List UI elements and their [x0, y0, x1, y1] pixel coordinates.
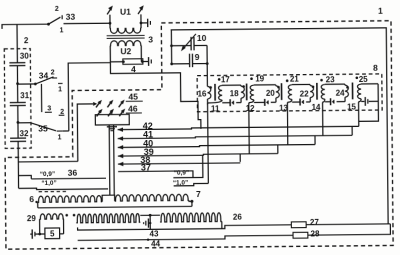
tap to 0,9 line — [18, 176, 31, 180]
svg-text:“0,9”: “0,9” — [40, 171, 55, 178]
1,0 right line — [174, 183, 209, 185]
bus line 42 — [118, 126, 359, 129]
svg-text:44: 44 — [151, 240, 161, 249]
tank tail to riser cell 3 — [287, 100, 292, 104]
return line under coils — [38, 206, 192, 207]
bus step links — [239, 154, 241, 162]
svg-text:1: 1 — [58, 87, 62, 94]
switch 35 — [31, 123, 56, 131]
wiper arrows row 46 — [97, 110, 101, 116]
selector pin — [111, 111, 113, 115]
inductor 23 tank winding — [321, 85, 325, 100]
capacitor 30 — [9, 62, 25, 64]
svg-text:U1: U1 — [120, 7, 131, 17]
tank top wire cell 1 — [222, 84, 241, 86]
coupling winding on leg cell 4 — [345, 85, 349, 97]
coupling winding on leg cell 2 — [276, 86, 280, 98]
ground inside selector — [107, 126, 117, 128]
svg-text:3: 3 — [47, 105, 51, 112]
wire U1 to ground — [141, 22, 148, 24]
svg-text:3: 3 — [148, 34, 153, 44]
dashed box 8 (filter bank) — [197, 74, 382, 112]
svg-text:43: 43 — [150, 229, 160, 238]
wire sw33 to U1 — [64, 22, 110, 24]
tank tail to riser cell 4 — [323, 99, 325, 103]
coil 26 — [76, 214, 140, 223]
coil 26 right leg — [221, 221, 223, 228]
svg-text:“0,9”: “0,9” — [174, 170, 189, 177]
vertical to caps — [170, 30, 172, 64]
0,9 right line — [173, 155, 203, 177]
riser wire node 12 — [248, 104, 250, 154]
svg-text:26: 26 — [233, 213, 243, 222]
core cell 5 — [351, 83, 353, 100]
svg-text:8: 8 — [373, 63, 378, 73]
svg-text:33: 33 — [66, 12, 76, 22]
svg-text:45: 45 — [128, 92, 138, 102]
tank tail to riser cell 5 — [359, 99, 362, 103]
antenna arrow left — [107, 8, 111, 14]
U2 secondary winding — [110, 41, 141, 46]
svg-text:2: 2 — [60, 109, 64, 116]
svg-text:18: 18 — [230, 89, 240, 98]
line 44 — [78, 235, 293, 240]
svg-text:19: 19 — [255, 74, 265, 83]
svg-text:2: 2 — [55, 6, 59, 13]
svg-text:28: 28 — [311, 229, 321, 238]
selector plate — [95, 114, 129, 125]
tank bottom + trimmer 24 — [325, 101, 331, 103]
wire to sw35 — [18, 122, 31, 124]
svg-text:14: 14 — [312, 103, 322, 112]
sw34 contact 3 — [40, 84, 42, 112]
core transformer 3 — [107, 34, 145, 36]
ground (U1) — [147, 19, 149, 27]
inductor 25 tank winding — [357, 84, 361, 99]
wire stack top — [16, 24, 18, 62]
wiper arrows row 45 — [96, 101, 100, 107]
tap wire y160 — [18, 160, 77, 163]
tank leg cell 2 — [275, 85, 277, 86]
coil 7 — [115, 194, 189, 201]
core cell 2 — [246, 84, 248, 101]
bus line 39 — [118, 154, 278, 157]
inductor 19 tank winding — [250, 85, 254, 100]
svg-text:6: 6 — [29, 194, 34, 204]
resistor 27 — [291, 222, 306, 228]
svg-text:1: 1 — [378, 6, 383, 16]
top bus wire — [171, 28, 388, 226]
resistor 28 — [293, 232, 308, 238]
selector vertical wire — [68, 63, 111, 131]
riser wire node 14 — [322, 103, 324, 136]
svg-text:29: 29 — [27, 214, 37, 223]
tap on coil 26 — [149, 214, 152, 217]
coil 6 — [38, 196, 103, 203]
svg-text:36: 36 — [68, 167, 78, 177]
wire switches to selector — [77, 104, 93, 161]
input wire top-left — [2, 24, 49, 29]
switch 33 — [47, 23, 50, 26]
svg-text:31: 31 — [20, 91, 30, 100]
tank bottom + ground cell 5 — [361, 100, 364, 102]
bus line 38 — [118, 163, 240, 164]
wire — [17, 106, 19, 139]
capacitor 9 — [172, 63, 190, 65]
stage5 leg link — [359, 101, 379, 121]
svg-text:11: 11 — [211, 104, 220, 113]
svg-text:5: 5 — [50, 229, 55, 238]
svg-text:37: 37 — [141, 163, 151, 173]
antenna arrow right — [138, 8, 142, 14]
tank top wire cell 3 — [292, 83, 310, 85]
0,9 left line — [31, 177, 106, 180]
tank leg cell 4 — [344, 84, 346, 85]
tank top wire cell 2 — [254, 84, 276, 86]
svg-text:16: 16 — [197, 89, 207, 98]
svg-text:“1,0”: “1,0” — [41, 180, 56, 187]
svg-text:24: 24 — [336, 89, 346, 98]
coupling winding on leg cell 3 — [310, 86, 314, 98]
svg-text:“1,0”: “1,0” — [173, 180, 188, 187]
coupling winding on leg cell 1 — [241, 86, 245, 98]
svg-text:U2: U2 — [120, 46, 131, 56]
U1 primary winding — [109, 15, 111, 29]
node 11 riser — [207, 99, 210, 183]
line 43 — [78, 225, 292, 230]
core cell 1 — [214, 84, 216, 101]
svg-text:1: 1 — [60, 27, 64, 34]
tank bottom + trimmer 18 — [222, 102, 230, 104]
svg-text:34: 34 — [39, 70, 49, 80]
tank top wire cell 4 — [325, 83, 345, 85]
svg-text:22: 22 — [300, 89, 310, 98]
capacitor 32 — [10, 137, 26, 139]
U2 bottom loop staircase — [110, 61, 201, 130]
tank leg cell 3 — [309, 84, 311, 85]
riser wire node 15 — [358, 103, 360, 127]
wire caps to filter — [206, 45, 208, 86]
svg-text:30: 30 — [20, 52, 30, 61]
wire stack bottom — [17, 141, 19, 188]
core cell 3 — [280, 83, 282, 100]
selector stem — [108, 125, 111, 195]
contact 2 lower — [59, 114, 65, 116]
svg-text:21: 21 — [290, 75, 300, 84]
bus line 41 — [118, 135, 352, 138]
line 37 — [118, 171, 193, 178]
svg-text:7: 7 — [196, 189, 201, 199]
wire sw35 to selector vertical — [63, 130, 69, 132]
inductor 21 tank winding — [288, 85, 292, 100]
ground (29) — [30, 233, 32, 235]
coil 7 end — [189, 200, 192, 206]
svg-text:17: 17 — [221, 75, 231, 84]
ground (resistor 4) — [148, 57, 150, 66]
junction coils 6-7 — [102, 195, 115, 202]
svg-text:2: 2 — [51, 70, 55, 77]
riser wire node 13 — [286, 103, 288, 144]
tank tail to riser cell 1 — [207, 100, 222, 104]
core cell 4 — [316, 83, 318, 100]
tank tail to riser cell 2 — [249, 100, 254, 104]
dashed segment below 1,0 line — [39, 190, 69, 192]
svg-text:35: 35 — [38, 123, 48, 133]
variable capacitor 10 — [172, 45, 191, 47]
tank top wire cell 5 — [361, 83, 378, 85]
svg-text:9: 9 — [195, 52, 200, 62]
box 5 — [45, 228, 60, 239]
svg-text:10: 10 — [197, 33, 207, 43]
dashed box 2 (capacitor bank) — [4, 49, 31, 149]
svg-text:27: 27 — [310, 218, 320, 227]
svg-text:32: 32 — [20, 129, 30, 138]
tank bottom + trimmer 20 — [254, 101, 265, 103]
svg-text:12: 12 — [246, 104, 256, 113]
svg-text:46: 46 — [128, 104, 138, 114]
coil 29 — [40, 214, 64, 219]
tank bottom + trimmer 22 — [292, 101, 300, 103]
capacitor 31 — [10, 101, 26, 103]
1,0 left line — [19, 187, 109, 189]
svg-text:23: 23 — [326, 75, 336, 84]
tank leg cell 5 — [377, 84, 379, 101]
switch 34 — [34, 83, 37, 86]
svg-text:20: 20 — [266, 89, 276, 98]
tank leg cell 1 — [240, 85, 242, 86]
svg-text:2: 2 — [24, 36, 29, 45]
wire to sw34 — [18, 83, 36, 85]
svg-text:1: 1 — [58, 134, 62, 141]
resistor 4 — [123, 59, 143, 65]
svg-text:15: 15 — [347, 103, 357, 112]
bus line 40 — [118, 144, 315, 147]
wire — [16, 66, 18, 103]
inductor 17 tank winding — [219, 85, 223, 100]
inductor 16 (input coupling winding) — [207, 86, 211, 99]
svg-text:25: 25 — [359, 75, 369, 84]
